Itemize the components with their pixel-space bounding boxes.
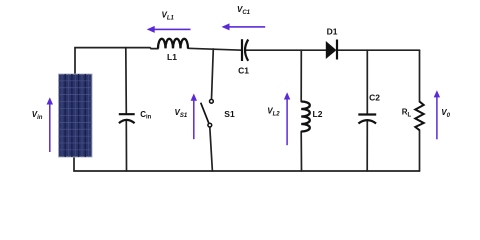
wire L2 branch bottom [300, 132, 302, 172]
voltage arrow Vin [47, 97, 53, 152]
svg-text:S1: S1 [224, 109, 235, 119]
svg-text:Vin: Vin [32, 110, 43, 121]
voltage arrow VS1 [191, 94, 197, 140]
wire L2 branch top [300, 50, 302, 101]
voltage arrow VL1 [147, 26, 191, 33]
wire RL branch top [419, 50, 421, 102]
svg-text:VL2: VL2 [267, 107, 280, 118]
wire top rail D1 to top-right corner [337, 49, 419, 51]
svg-text:V0: V0 [441, 108, 450, 119]
voltage arrow VC1 [222, 23, 266, 30]
wire S1 branch top [212, 49, 214, 99]
svg-text:VC1: VC1 [237, 5, 251, 16]
svg-text:D1: D1 [327, 26, 338, 36]
resistor RL [415, 102, 423, 131]
wire bottom rail [74, 157, 420, 171]
svg-text:VS1: VS1 [175, 108, 188, 119]
wire Cin branch bottom [125, 121, 127, 171]
switch S1 [201, 99, 214, 127]
svg-text:Cin: Cin [140, 110, 151, 121]
inductor L2 [301, 102, 310, 132]
wire Cin branch top [125, 48, 128, 114]
svg-text:L1: L1 [167, 52, 177, 62]
svg-text:L2: L2 [313, 109, 323, 119]
wire top rail C1 to D1 [246, 49, 326, 51]
svg-text:RL: RL [402, 108, 412, 119]
svg-text:C2: C2 [369, 92, 380, 102]
capacitor Cin [119, 114, 135, 123]
capacitor C2 [358, 115, 376, 124]
svg-text:VL1: VL1 [162, 11, 175, 22]
voltage arrow VL2 [284, 92, 290, 145]
wire top rail left (panel top to L1) [75, 48, 158, 77]
wire C2 branch top [366, 50, 368, 114]
voltage arrow V0 [434, 90, 440, 139]
diode D1 [326, 40, 337, 60]
solar panel PV module [59, 74, 93, 157]
wire C2 branch bottom [366, 122, 368, 172]
inductor L1 [158, 39, 188, 49]
wire top rail L1 to C1 [188, 48, 242, 50]
svg-text:C1: C1 [238, 65, 249, 75]
wire S1 branch bottom [210, 127, 213, 171]
capacitor C1 [242, 39, 248, 61]
wire RL branch bottom [419, 130, 421, 171]
